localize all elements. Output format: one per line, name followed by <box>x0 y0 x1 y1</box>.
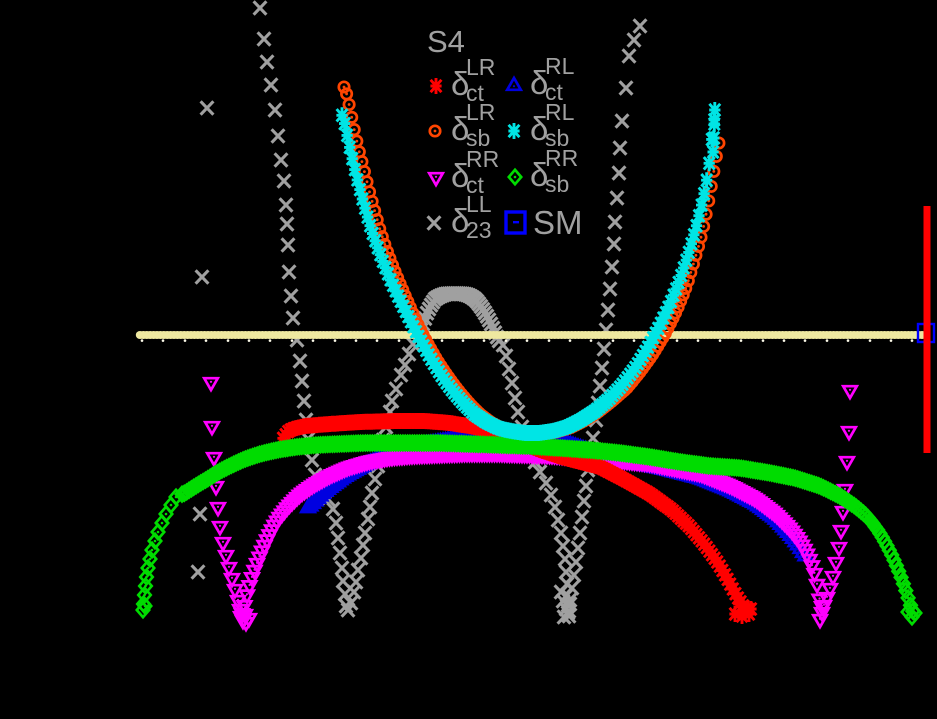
legend block <box>427 24 583 243</box>
SM point: blue open square at right end of khaki band <box>918 324 934 342</box>
orange curve: delta_sb^LR (orange open-circle markers) <box>339 82 724 439</box>
svg-text:RL: RL <box>545 53 575 79</box>
svg-text:RR: RR <box>545 145 578 171</box>
legend entry SM (blue open square) <box>506 204 583 241</box>
blue curve: delta_ct^RL (blue triangle markers, mostly hidden under magenta) <box>301 428 812 560</box>
legend entry delta_ct^LR (red star) <box>430 54 495 106</box>
svg-text:sb: sb <box>545 171 569 197</box>
svg-text:S4: S4 <box>427 24 465 59</box>
gray curve: delta_23^LL chi-profile (gray x markers) <box>192 1 647 623</box>
svg-text:SM: SM <box>533 204 583 241</box>
magenta curve: delta_ct^RR (magenta down-triangle markers) <box>204 378 857 630</box>
svg-text:LR: LR <box>466 54 495 80</box>
legend entry delta_sb^RL (cyan star) <box>508 99 574 151</box>
green curve: delta_sb^RR (green diamond markers) <box>137 436 921 624</box>
red curve: delta_ct^LR (red star markers) <box>277 413 756 624</box>
legend entry delta_sb^LR (orange circle) <box>430 99 496 151</box>
cyan curve: delta_sb^RL (cyan star markers) <box>336 102 720 441</box>
svg-text:23: 23 <box>466 217 492 243</box>
svg-text:RR: RR <box>466 146 499 172</box>
svg-text:RL: RL <box>545 99 575 125</box>
legend entry delta_ct^RR (magenta triangle) <box>429 146 499 198</box>
legend entry delta_sb^RR (green diamond) <box>509 145 578 197</box>
khaki horizontal experimental band <box>136 331 926 342</box>
legend entry delta_23^LL (gray x) <box>428 191 492 243</box>
svg-text:LL: LL <box>466 191 492 217</box>
legend entry delta_ct^RL (blue triangle) <box>507 53 574 105</box>
legend title S4 <box>427 24 465 59</box>
svg-text:LR: LR <box>466 99 495 125</box>
red vertical bar at right axis <box>924 206 931 453</box>
